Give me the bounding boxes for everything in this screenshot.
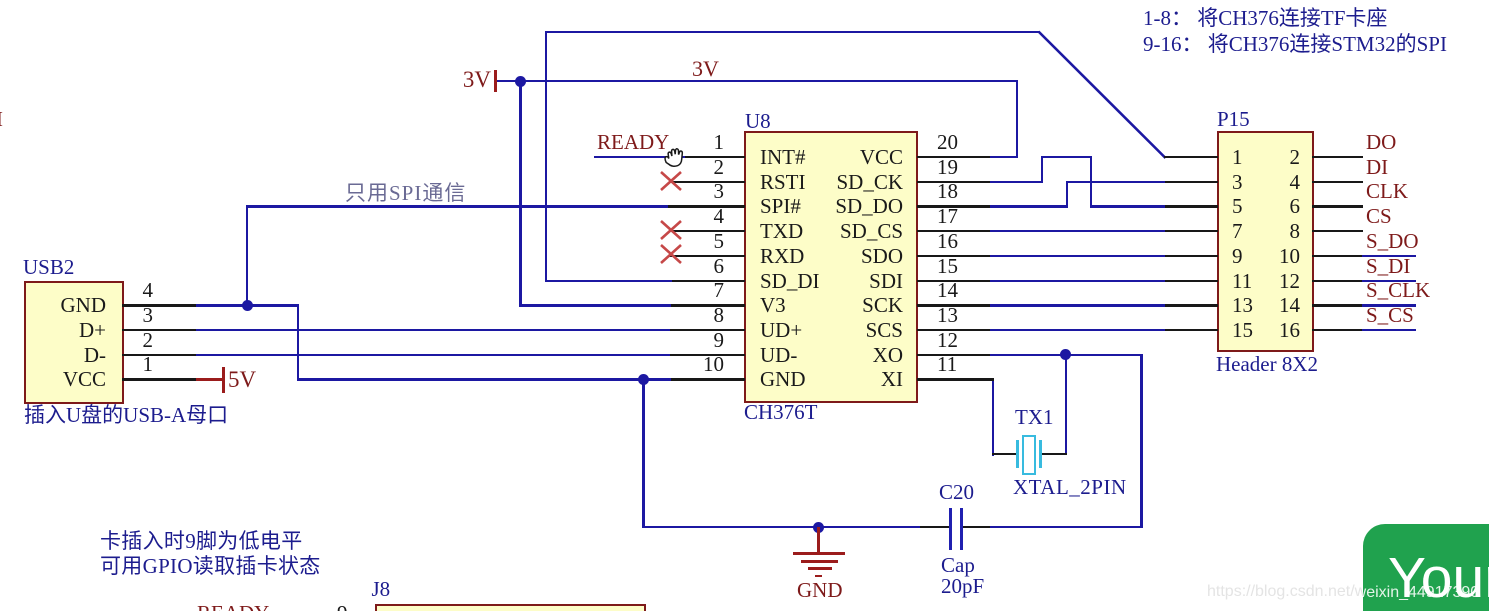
U8 right pin 17 stub <box>917 230 990 232</box>
mouse hand cursor <box>663 145 687 169</box>
wire: D+ to U8 UD+ <box>196 329 670 331</box>
USB2 pin number 4 <box>113 280 153 301</box>
U8 pin 4 stub <box>669 230 745 232</box>
designator P15 <box>1217 109 1250 130</box>
power port 3V text <box>441 68 491 91</box>
crystal TX1 right lead <box>1041 453 1067 455</box>
pin name V3 <box>760 295 786 316</box>
capacitor C20 right plate <box>960 508 963 550</box>
P15 pin number 3 <box>1232 172 1243 193</box>
pin number 6 <box>664 256 724 277</box>
wire: S_CS net stub <box>1362 329 1416 331</box>
junction on 3V rail <box>515 76 526 87</box>
wire: SD_CS pin17 to P15 pin7 <box>990 230 1166 232</box>
U8 pin 6 stub <box>670 280 745 282</box>
pin name SD_DI <box>760 271 820 292</box>
P15 pin number 16 <box>1240 320 1300 341</box>
P15 right stub row3 <box>1312 205 1363 207</box>
P15 pin number 4 <box>1240 172 1300 193</box>
logo green rounded box <box>1363 524 1489 611</box>
wire: SDO pin16 to P15 pin9 <box>990 255 1166 257</box>
P15 right stub row2 <box>1312 181 1363 183</box>
wire: SDI pin15 to P15 pin11 <box>990 280 1166 282</box>
J8 component body (clipped) <box>375 604 646 611</box>
pin number 8 <box>664 305 724 326</box>
ground symbol bar 4 <box>815 575 823 578</box>
pin number 18 <box>937 181 958 202</box>
P15 pin number 5 <box>1232 196 1243 217</box>
USB2 pin 3 stub <box>122 329 197 331</box>
pin name INT# <box>760 147 806 168</box>
P15 right stub row5 <box>1312 255 1363 257</box>
P15 pin number 13 <box>1232 295 1253 316</box>
crystal TX1 left lead <box>992 453 1017 455</box>
USB2 pin name GND <box>0 295 106 316</box>
wire: SD_CK jog top horizontal <box>1041 156 1093 158</box>
wire: SD_DO pin18 horizontal <box>990 205 1067 207</box>
wire: SCK pin14 to P15 pin13 <box>990 304 1166 306</box>
ground symbol bar 3 <box>808 567 832 570</box>
watermark text (over green) <box>1363 584 1489 602</box>
comment CH376T <box>744 402 818 423</box>
pin name SD_CS <box>783 221 903 242</box>
wire: crystal right vertical from XO junction <box>1065 354 1067 455</box>
P15 pin number 1 <box>1232 147 1243 168</box>
P15 right stub row6 <box>1312 280 1363 282</box>
wire: vertical 3V rail down to U8 pin20 VCC <box>1016 80 1018 158</box>
ground symbol bar 1 <box>793 552 845 555</box>
junction: GND net drop on pin10 wire <box>638 374 649 385</box>
P15 left stub row3 <box>1165 205 1218 207</box>
wire: 3V rail horizontal <box>497 80 1018 82</box>
ground symbol bar 2 <box>801 560 838 563</box>
crystal TX1 right plate <box>1039 440 1042 469</box>
note: 卡插入时9脚为低电平 <box>100 531 303 552</box>
pin name RSTI <box>760 172 806 193</box>
wire: SCS pin13 to P15 pin15 <box>990 329 1166 331</box>
no-connect X on pin 2 <box>659 170 683 192</box>
net label DO <box>1366 132 1396 153</box>
pin name UD- <box>760 345 797 366</box>
P15 pin number 10 <box>1240 246 1300 267</box>
wire: SD_CK jog down to row3 <box>1090 156 1092 208</box>
net label CS <box>1366 206 1392 227</box>
P15 right stub row4 <box>1312 230 1363 232</box>
pin number 1 <box>664 132 724 153</box>
P15 left stub row4 <box>1165 230 1218 232</box>
USB2 component body <box>24 281 124 404</box>
junction: XO / crystal tap <box>1060 349 1071 360</box>
designator USB2 <box>23 257 74 278</box>
wire into pin 6 from vertical <box>545 280 672 282</box>
note: top-right comment line 1 <box>1143 8 1387 29</box>
P15 pin number 11 <box>1232 271 1252 292</box>
pin name RXD <box>760 246 804 267</box>
USB2 pin name D+ <box>0 320 106 341</box>
P15 component body <box>1217 131 1314 352</box>
crystal TX1 left plate <box>1016 440 1019 469</box>
P15 left stub row8 <box>1165 329 1218 331</box>
P15 right stub row7 <box>1312 304 1363 306</box>
pin name SDI <box>783 271 903 292</box>
wire into pin 7 from 3V vertical <box>519 304 671 306</box>
pin name SCS <box>783 320 903 341</box>
wire: SD_DO jog up <box>1066 181 1068 208</box>
pin name GND <box>760 369 806 390</box>
net label 只用SPI通信 <box>345 183 466 204</box>
wire: S_CLK net stub <box>1362 304 1416 306</box>
USB2 pin 4 stub <box>122 304 197 306</box>
power port 3V bar symbol <box>494 70 497 92</box>
wire: XO net horizontal (pin12 to riser) <box>990 354 1143 356</box>
P15 pin number 6 <box>1240 196 1300 217</box>
pin number 17 <box>937 206 958 227</box>
wire: vertical tie SPI# down to GND net <box>246 205 248 306</box>
wire: XI vertical drop <box>992 378 994 456</box>
P15 right stub row8 <box>1312 329 1363 331</box>
pin number 5 <box>664 231 724 252</box>
pin number 19 <box>937 157 958 178</box>
wire: vertical from top net down to U8 pin6 SD_DI <box>545 31 547 282</box>
wire: SD_CK pin19 horizontal <box>990 181 1043 183</box>
note: 可用GPIO读取插卡状态 <box>100 556 321 577</box>
no-connect X on pin 5 <box>659 243 683 265</box>
U8 pin 8 stub <box>669 329 745 331</box>
U8 pin 3 stub <box>668 205 745 207</box>
junction: SPI# tie on GND wire <box>242 300 253 311</box>
wire: top horizontal net (SD_DI to P15 pin1) <box>545 31 1040 33</box>
pin number 10 <box>664 354 724 375</box>
pin name SPI# <box>760 196 801 217</box>
wire: GND net bottom horizontal <box>642 526 920 528</box>
pin number 13 <box>937 305 958 326</box>
U8 right pin 12 stub <box>917 354 990 356</box>
pin name SD_DO <box>783 196 903 217</box>
P15 pin number 7 <box>1232 221 1243 242</box>
wire: READY net into U8 pin1 <box>594 156 687 158</box>
junction: ground symbol tap <box>813 522 824 533</box>
wire: GND row to U8 GND pin10 <box>297 378 671 380</box>
designator U8 <box>745 111 771 132</box>
comment 插入U盘的USB-A母口 <box>24 405 228 426</box>
pin number 15 <box>937 256 958 277</box>
pin name VCC <box>783 147 903 168</box>
capacitor C20 right lead <box>963 526 990 528</box>
USB2 pin number 1 <box>113 354 153 375</box>
power port GND text <box>797 580 843 601</box>
capacitor C20 left lead <box>920 526 950 528</box>
USB2 pin 1 stub <box>122 378 197 380</box>
designator C20 <box>939 482 974 503</box>
net label 3V on rail <box>692 58 719 80</box>
pin number 12 <box>937 330 958 351</box>
net label READY <box>597 132 669 153</box>
P15 left stub row1 <box>1164 156 1218 158</box>
U8 right pin 13 stub <box>917 329 990 331</box>
USB2 pin 2 stub <box>122 354 197 356</box>
pin name SCK <box>783 295 903 316</box>
P15 pin number 12 <box>1240 271 1300 292</box>
wire: S_DI net stub <box>1362 280 1416 282</box>
U8 right pin 11 stub <box>917 378 994 380</box>
USB2 pin name VCC <box>0 369 106 390</box>
net label CLK <box>1366 181 1408 202</box>
net label S_DO <box>1366 231 1419 252</box>
P15 pin number 9 <box>1232 246 1243 267</box>
power port 5V text <box>228 368 256 391</box>
pin name SD_CK <box>783 172 903 193</box>
P15 left stub row6 <box>1165 280 1218 282</box>
comment Header 8X2 <box>1216 354 1318 375</box>
P15 left stub row5 <box>1165 255 1218 257</box>
pin number 20 <box>937 132 958 153</box>
net label READY (bottom, clipped) <box>197 603 269 611</box>
wire: cap right to XO riser <box>990 526 1143 528</box>
net label S_DI <box>1366 256 1410 277</box>
pin name SDO <box>783 246 903 267</box>
wire: SD_CK into P15 pin5 row <box>1090 205 1166 207</box>
wire: GND net vertical drop <box>642 378 644 528</box>
logo text You <box>1388 545 1489 611</box>
U8 pin 5 stub <box>669 255 745 257</box>
USB2 pin name D- <box>0 345 106 366</box>
capacitor C20 left plate <box>949 508 952 550</box>
USB2 pin number 2 <box>113 330 153 351</box>
cut-off net label at left edge <box>0 109 3 130</box>
net label S_CS <box>1366 305 1414 326</box>
comment 20pF <box>941 576 984 597</box>
pin number 7 <box>664 280 724 301</box>
wire: S_DO net stub <box>1362 255 1416 257</box>
comment Cap <box>941 555 975 576</box>
wire: USB GND to corner <box>196 304 299 306</box>
wire: VCC pin20 to 3V vertical <box>990 156 1018 158</box>
no-connect X on pin 4 <box>659 219 683 241</box>
ground symbol stem <box>817 527 819 554</box>
P15 left stub row2 <box>1165 181 1218 183</box>
designator J8 <box>372 579 391 600</box>
watermark text (over white) <box>1207 584 1363 600</box>
net label S_CLK <box>1366 280 1430 301</box>
U8 right pin 14 stub <box>917 304 990 306</box>
U8 right pin 20 stub <box>917 156 990 158</box>
crystal TX1 body rectangle <box>1022 435 1037 475</box>
wire: SD_CK jog up <box>1041 156 1043 183</box>
USB2 pin number 3 <box>113 305 153 326</box>
U8 right pin 16 stub <box>917 255 990 257</box>
U8 pin 7 stub <box>670 304 745 306</box>
U8 pin 2 stub <box>669 181 745 183</box>
wire: XO riser vertical <box>1140 354 1142 529</box>
U8 right pin 18 stub <box>917 205 990 207</box>
net label DI <box>1366 157 1388 178</box>
P15 left stub row7 <box>1165 304 1218 306</box>
P15 pin number 2 <box>1240 147 1300 168</box>
wire: vertical corner down to GND row <box>297 304 299 381</box>
power port 5V bar symbol <box>222 367 225 393</box>
pin number 2 <box>664 157 724 178</box>
designator TX1 <box>1015 407 1054 428</box>
pin number 9 (bottom, clipped) <box>337 603 348 611</box>
pin name UD+ <box>760 320 802 341</box>
U8 pin 1 stub <box>685 156 745 158</box>
P15 pin number 8 <box>1240 221 1300 242</box>
U8 pin 10 stub <box>669 378 745 380</box>
U8 right pin 19 stub <box>917 181 990 183</box>
wire: red stub USB VCC to 5V port <box>196 378 224 380</box>
pin number 16 <box>937 231 958 252</box>
pin name XI <box>783 369 903 390</box>
pin number 14 <box>937 280 958 301</box>
pin number 11 <box>937 354 957 375</box>
pin name TXD <box>760 221 803 242</box>
wire: SPI# net horizontal into U8 pin3 <box>246 205 670 207</box>
pin number 4 <box>664 206 724 227</box>
pin number 9 <box>664 330 724 351</box>
pin number 3 <box>664 181 724 202</box>
P15 pin number 15 <box>1232 320 1253 341</box>
wire: D- to U8 UD- <box>196 354 670 356</box>
wire: SD_DO into P15 pin3 row <box>1066 181 1166 183</box>
U8 right pin 15 stub <box>917 280 990 282</box>
P15 right stub row1 <box>1312 156 1363 158</box>
P15 pin number 14 <box>1240 295 1300 316</box>
U8 pin 9 stub <box>669 354 745 356</box>
comment XTAL_2PIN <box>1013 477 1127 498</box>
pin name XO <box>783 345 903 366</box>
wire: diagonal segment into P15 pin 1 <box>1030 25 1175 165</box>
note: top-right comment line 2 <box>1143 34 1447 55</box>
wire: vertical 3V rail down to U8 pin7 V3 <box>519 80 521 306</box>
U8 component body <box>744 131 918 403</box>
